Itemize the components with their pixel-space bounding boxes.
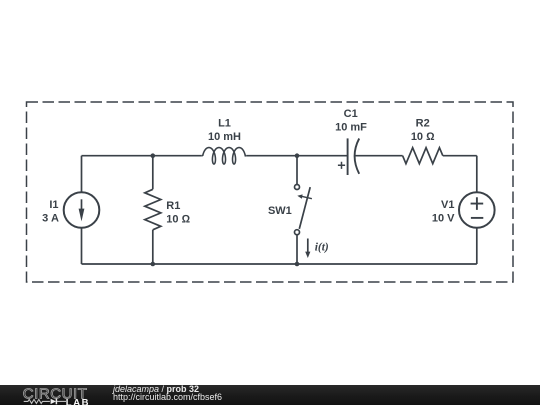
capacitor C1 plus polarity mark [338, 162, 345, 169]
wire left branch lower [81, 228, 83, 264]
svg-text:SW1: SW1 [268, 205, 292, 217]
svg-text:10 Ω: 10 Ω [411, 131, 435, 143]
svg-text:L1: L1 [218, 118, 231, 130]
voltage source V1 circle [459, 192, 495, 228]
svg-text:10 mH: 10 mH [208, 131, 241, 143]
switch SW1 lever [299, 187, 310, 229]
switch SW1 terminal top [295, 185, 300, 190]
inductor L1 [201, 148, 246, 165]
current source I1 arrowhead [79, 209, 85, 222]
current source I1 arrow [81, 199, 83, 210]
svg-text:R2: R2 [416, 117, 430, 129]
wire top rail segment 2 [247, 155, 348, 157]
resistor R2 [403, 148, 443, 164]
current label arrow i(t) [307, 239, 309, 253]
node dot top left [151, 153, 156, 158]
logo diode [51, 398, 56, 403]
switch SW1 actuation arrowhead [297, 194, 302, 198]
wire switch lower stub [296, 235, 298, 264]
node dot bottom left [151, 262, 156, 267]
node dot top mid [295, 153, 300, 158]
dashed bounding box [27, 102, 514, 282]
svg-text:i(t): i(t) [315, 242, 329, 254]
svg-text:C1: C1 [344, 108, 358, 120]
switch SW1 terminal bottom [295, 230, 300, 235]
wire R1 lower stub [152, 230, 154, 264]
wire top rail segment 1 [82, 155, 202, 157]
logo resistor squiggle [24, 399, 50, 403]
capacitor C1 plate negative curved [355, 139, 360, 174]
svg-text:I1: I1 [49, 199, 58, 211]
wire left branch upper [81, 156, 83, 193]
svg-text:3 A: 3 A [42, 213, 59, 225]
voltage source V1 plus mark [471, 197, 484, 210]
wire switch upper stub [296, 156, 298, 185]
CircuitLab logo [22, 385, 102, 407]
wire top rail segment 4 [443, 155, 477, 157]
wire R1 upper stub [152, 156, 154, 190]
wire right branch lower [476, 228, 478, 264]
footer bar [0, 385, 540, 406]
svg-text:LAB: LAB [66, 397, 90, 407]
wire right branch upper [476, 156, 478, 193]
switch SW1 actuation arrow line [302, 196, 312, 198]
wire bottom rail [82, 263, 477, 265]
wire top rail segment 3 [355, 155, 403, 157]
svg-text:R1: R1 [166, 200, 180, 212]
capacitor C1 plate positive [347, 138, 349, 175]
resistor R1 [145, 189, 161, 229]
i(t) arrowhead [305, 252, 310, 258]
svg-text:10 mF: 10 mF [335, 122, 367, 134]
node dot bottom mid [295, 262, 300, 267]
current source I1 circle [64, 192, 100, 228]
svg-text:10 Ω: 10 Ω [166, 214, 190, 226]
voltage source V1 minus mark [471, 217, 483, 219]
svg-text:10 V: 10 V [432, 212, 455, 224]
svg-text:V1: V1 [441, 199, 454, 211]
